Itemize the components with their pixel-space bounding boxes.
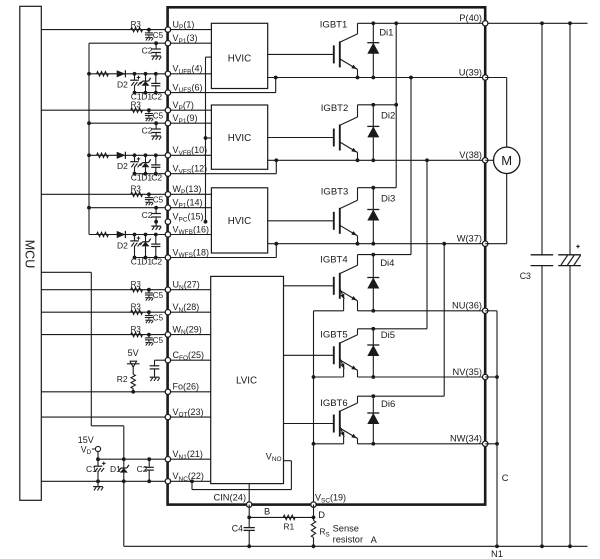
pin VVFB(10) [165,145,207,158]
wire NV to C line [485,375,499,379]
wire VOT row [41,416,168,418]
svg-text:U(39): U(39) [459,67,482,77]
diode Di1 [367,23,393,77]
pin VP1(9) [165,113,197,126]
node B label [264,506,270,516]
power 5V supply [127,348,140,374]
svg-text:C2: C2 [137,464,148,474]
svg-text:Di4: Di4 [380,258,394,269]
pin P(40) [459,13,488,26]
power 15V VD supply [78,435,101,459]
capacitor C5 (VN row) [145,310,164,322]
svg-text:IGBT5: IGBT5 [320,330,347,341]
pin WN(29) [165,324,202,337]
ground (C5 UN row) [145,298,153,301]
wire pin to LVIC [168,359,211,361]
resistor bootstrap (unlabeled) [97,232,109,236]
wire pin to HVIC1 [168,42,212,44]
ground (VPC) [151,222,161,230]
wire bootstrap return [135,257,168,259]
wire pin to LVIC [168,458,211,460]
wire IGBT5 collector rail [358,160,428,330]
wire pin to LVIC [168,311,211,313]
svg-text:C3: C3 [520,271,531,281]
svg-text:R1: R1 [283,522,294,532]
ground (C2 decoupling) [151,136,161,140]
svg-text:Di2: Di2 [381,111,395,122]
ground (C5 WN row) [145,343,153,346]
capacitor C2 (supply) [137,459,154,483]
wire VSC to D [313,505,315,518]
wire VUFS link [168,76,278,93]
resistor R3 (WN row) [131,325,143,337]
pin VNC(22) [165,471,204,484]
svg-text:C5: C5 [153,31,164,40]
wire pin to HVIC3 [168,193,212,195]
node VNO label [266,451,282,463]
wire VNC to LVIC [168,479,211,483]
pin WP(13) [165,184,201,197]
wire bootstrap return [135,92,168,94]
wire DC+ rail 2 [569,23,571,546]
svg-text:R3: R3 [131,101,142,110]
svg-text:C5: C5 [153,111,164,120]
resistor Rs sense [311,517,329,546]
IC LVIC (low-side driver) [211,276,284,483]
svg-text:NV(35): NV(35) [453,367,482,377]
resistor R3 (UN row) [131,280,143,292]
svg-text:N1: N1 [491,549,503,559]
wire W phase line [268,242,486,246]
wire bootstrap return [135,173,168,175]
capacitor C2 (VP1 decoupling) [142,121,161,135]
capacitor C3 [520,255,554,281]
ground (supply) [93,481,103,490]
svg-text:Di3: Di3 [381,193,395,204]
zener diode D1 (bootstrap) [140,233,150,260]
wire bootstrap feed [89,154,168,156]
wire pin to HVIC1 [168,29,212,31]
svg-text:V(38): V(38) [459,150,482,160]
wire VWFS link [168,242,278,258]
wire gate drive IGBT1 [268,53,334,55]
svg-text:C5: C5 [153,291,164,300]
wire pin to HVIC3 [168,234,212,236]
transistor Q6 IGBT6 [314,396,358,444]
IPM package outline [168,7,486,504]
svg-text:C2: C2 [151,257,162,267]
wire sense rail [312,311,316,505]
pin NU(36) [452,301,488,314]
pin CIN(24) [214,493,252,508]
wire bootstrap feed [89,73,168,75]
IC HVIC1 (U-phase high-side driver) [211,23,267,88]
wire W to motor [485,174,507,244]
diode Di6 [367,396,395,444]
node C label [502,473,509,483]
ground (C5 UP row) [145,38,153,41]
capacitor C2 (VP1 decoupling) [142,206,161,224]
pin VUFB(4) [165,64,202,77]
svg-text:C2: C2 [142,126,153,136]
wire VVFS link [168,158,278,173]
pin VP1(3) [165,33,197,46]
wire pin to HVIC3 [168,207,212,209]
wire pin to LVIC [168,416,211,418]
wire P drop [394,23,398,187]
wire IGBT3 collector rail [358,186,397,190]
capacitor C2 (VP1 decoupling) [142,41,161,55]
capacitor C5 (UP row) [145,28,164,40]
svg-text:D2: D2 [117,240,128,250]
svg-text:D1: D1 [110,464,121,474]
capacitor C1 (bootstrap) [130,233,140,260]
resistor R3 (VN row) [131,303,143,315]
resistor R1 [283,515,295,531]
wire IGBT6 collector rail [358,244,445,398]
zener diode D1 (bootstrap) [140,72,150,95]
pin VOT(23) [165,407,203,420]
pin CFO(25) [165,350,204,363]
svg-text:HVIC: HVIC [228,54,251,65]
resistor R3 (UP row) [131,20,143,32]
wire gate drive IGBT5 [284,354,334,356]
svg-text:C2: C2 [151,173,162,183]
wire MCU common link [41,272,124,459]
capacitor C5 (WP row) [145,192,164,204]
capacitor C5 (WN row) [145,333,164,345]
svg-text:HVIC: HVIC [228,216,251,227]
pin VN(28) [165,302,199,315]
wire NW line [358,442,486,446]
wire WP from MCU [41,193,168,195]
svg-text:R3: R3 [131,20,142,29]
svg-text:IGBT3: IGBT3 [321,186,348,197]
wire gate drive IGBT2 [268,137,334,139]
wire VN from MCU [41,311,168,313]
svg-text:Fo(26): Fo(26) [173,382,200,392]
pin VSC(19) [311,493,346,508]
node N1 label [491,549,503,559]
svg-text:C5: C5 [153,313,164,322]
svg-text:R2: R2 [117,374,128,384]
IC HVIC2 (V-phase high-side driver) [211,105,267,169]
node D label [312,510,326,520]
diode Di5 [367,329,395,377]
wire VNO return [192,461,291,490]
wire HVIC COM rail [204,57,212,224]
capacitor C5 (UN row) [145,288,164,300]
wire gate drive IGBT4 [284,285,334,287]
svg-text:5V: 5V [128,348,139,358]
svg-text:C1: C1 [131,173,142,183]
wire IGBT4 collector rail [358,78,412,257]
svg-text:HVIC: HVIC [228,133,251,144]
pin Fo(26) [165,382,199,395]
transistor Q3 IGBT3 [321,186,358,243]
svg-text:IGBT6: IGBT6 [320,398,347,409]
svg-text:NW(34): NW(34) [450,434,482,444]
wire CIN link [248,484,250,505]
wire pin to LVIC [168,391,211,393]
wire VP from MCU [41,109,168,111]
svg-text:C2: C2 [142,210,153,220]
IC HVIC3 (W-phase high-side driver) [211,188,267,253]
wire NV line [358,375,486,379]
pin NW(34) [450,434,488,447]
wire VP1 row [89,122,168,124]
ground (C5 VP row) [145,118,153,121]
wire pin to LVIC [168,289,211,291]
diode Di3 [367,188,395,244]
wire IGBT2 collector rail [358,103,397,107]
MCU block [20,6,42,500]
svg-text:M: M [501,153,512,168]
wire pin to LVIC [168,334,211,336]
svg-text:C2: C2 [142,46,153,56]
transistor Q4 IGBT4 [314,254,358,311]
label sense resistor [333,523,363,544]
labels C1 D1 C2 [131,173,163,183]
transistor Q1 IGBT1 [320,19,358,77]
wire VVFB to HVIC2 [168,154,212,156]
pin UN(27) [165,280,200,293]
svg-text:R3: R3 [131,325,142,334]
wire N1 bottom line [124,544,588,548]
svg-text:C1: C1 [131,257,142,267]
pin UP(1) [165,19,194,32]
capacitor C1 (bootstrap) [130,153,140,175]
labels C1 D1 C2 [131,257,163,267]
wire VNC to N line [123,481,125,546]
pin VWFB(16) [165,224,209,237]
diode Di2 [367,105,395,161]
svg-text:C1: C1 [86,464,97,474]
capacitor C5 (VP row) [145,108,164,120]
svg-text:LVIC: LVIC [236,376,257,387]
zener diode D1 (supply) [110,459,129,483]
pin VN1(21) [165,449,203,462]
wire 15V bootstrap rail [87,43,91,234]
capacitor C2 (bootstrap) [151,153,160,175]
svg-text:D2: D2 [117,80,128,90]
diode Di4 [367,255,394,311]
svg-text:D: D [318,510,325,520]
transistor Q5 IGBT5 [314,329,358,377]
svg-text:W(37): W(37) [457,234,482,244]
pin U(39) [459,67,488,80]
svg-text:Di1: Di1 [379,27,393,38]
node A label [371,535,378,545]
wire DC+ rail 1 [541,23,543,546]
motor M [494,147,520,173]
svg-text:C1: C1 [131,92,142,102]
svg-text:IGBT2: IGBT2 [321,103,348,114]
wire WN from MCU [41,334,168,336]
pin V(38) [459,150,488,163]
diode D2 [117,231,128,251]
ground (C2 decoupling) [151,56,161,60]
battery VDC [558,245,581,266]
resistor bootstrap (unlabeled) [97,72,109,76]
wire bootstrap feed [89,234,168,236]
wire CFO row [155,359,168,361]
wire VNC row [41,480,168,482]
capacitor CFO filter [150,360,160,376]
svg-text:Di5: Di5 [381,330,395,341]
pin NV(35) [453,367,488,380]
wire gate drive IGBT6 [284,423,334,425]
resistor R2 [117,374,136,392]
wire Fo row [41,390,168,394]
wire VP1 row [89,42,168,44]
pin W(37) [457,234,488,247]
svg-text:C: C [502,473,509,483]
wire V phase line [268,158,486,162]
wire pin to HVIC2 [168,109,212,111]
svg-text:resistor: resistor [333,535,363,545]
svg-text:NU(36): NU(36) [452,301,482,311]
resistor R3 (WP row) [131,185,143,197]
svg-text:A: A [371,535,378,545]
wire U phase line [268,76,486,80]
wire P rail [358,21,588,25]
wire VUFB to HVIC1 [168,73,212,75]
capacitor C4 [232,517,255,546]
wire NW to C line [485,442,499,446]
svg-text:P(40): P(40) [459,13,482,23]
wire V to motor [485,159,493,161]
wire B line [247,505,313,520]
svg-text:IGBT1: IGBT1 [320,19,347,30]
svg-text:C5: C5 [153,196,164,205]
pin VP(7) [165,100,194,113]
pin VP1(14) [165,198,202,211]
wire NU line [358,309,486,313]
svg-text:R3: R3 [131,303,142,312]
pin VPC(15) [165,212,203,225]
svg-text:MCU: MCU [23,240,37,268]
svg-text:R3: R3 [131,185,142,194]
ground (C5 VN row) [145,320,153,323]
capacitor C1 (bootstrap) [130,72,140,95]
svg-text:C2: C2 [151,92,162,102]
ground (C5 WP row) [145,202,153,205]
resistor R3 (VP row) [131,101,143,113]
capacitor C1 (supply) [86,459,106,483]
wire pin to HVIC2 [168,122,212,124]
wire VP1 row [89,207,168,209]
wire gate drive IGBT3 [268,220,334,222]
pin VVFS(12) [165,164,207,177]
zener diode D1 (bootstrap) [140,153,150,175]
diode D2 [117,70,128,90]
svg-text:R3: R3 [131,280,142,289]
labels C1 D1 C2 [131,92,163,102]
diode D2 [117,152,128,172]
svg-text:Di6: Di6 [381,399,395,410]
svg-text:B: B [264,506,270,516]
svg-text:C5: C5 [153,336,164,345]
svg-text:CIN(24): CIN(24) [214,493,247,503]
svg-text:Sense: Sense [333,523,359,533]
wire UN from MCU [41,289,168,291]
svg-text:C4: C4 [232,524,243,534]
wire NU to C line [485,311,497,547]
wire VN1 row [96,457,168,461]
ground (CFO filter) [150,377,160,381]
capacitor C2 (bootstrap) [151,233,160,260]
svg-text:IGBT4: IGBT4 [320,254,347,265]
wire U to motor [485,78,507,148]
pin VUFS(6) [165,82,202,95]
capacitor C2 (bootstrap) [151,72,160,95]
pin VWFS(18) [165,247,209,260]
svg-text:D2: D2 [117,161,128,171]
resistor bootstrap (unlabeled) [97,153,109,157]
transistor Q2 IGBT2 [321,103,358,160]
wire UP from MCU [41,29,168,31]
